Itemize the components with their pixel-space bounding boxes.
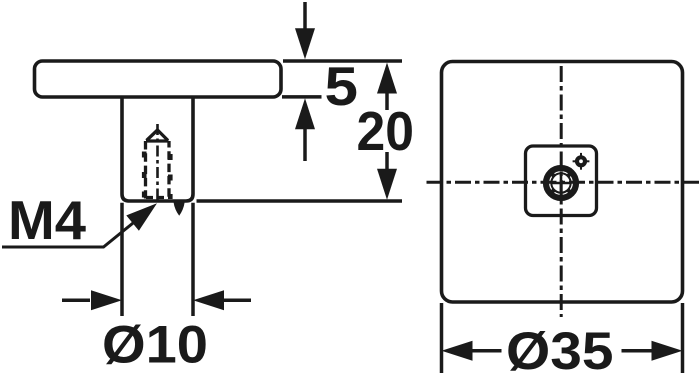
svg-text:Ø10: Ø10: [102, 316, 208, 375]
svg-text:Ø35: Ø35: [506, 322, 614, 380]
svg-text:M4: M4: [8, 189, 86, 251]
svg-text:20: 20: [357, 101, 415, 162]
svg-text:5: 5: [325, 56, 359, 117]
